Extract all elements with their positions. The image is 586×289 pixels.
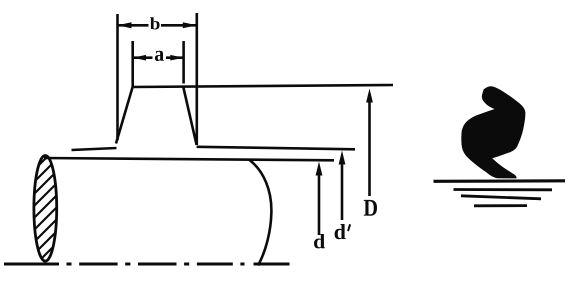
rib left slope — [116, 87, 133, 144]
top outside-diameter line (D level) — [132, 85, 393, 87]
dimension line b — [118, 24, 196, 27]
shaft right end arc — [250, 160, 272, 266]
seal seat line 1 — [434, 179, 566, 183]
d-prime line right segment — [197, 147, 355, 150]
label D — [364, 200, 377, 216]
seal seat line 2 — [454, 188, 553, 191]
dimension arrow D — [366, 89, 373, 197]
rib right slope — [183, 87, 196, 145]
arrowhead b right — [183, 22, 197, 28]
label d-prime — [335, 224, 346, 239]
dimension arrow d — [316, 162, 323, 236]
arrowhead a left — [133, 55, 146, 61]
dimension line a — [133, 56, 183, 59]
extension line b left — [116, 14, 119, 140]
seal seat line 4 — [474, 204, 527, 207]
V-ring seal cross-section (solid) — [461, 86, 525, 178]
extension line a right — [182, 41, 185, 84]
label d — [314, 234, 325, 248]
label a — [155, 51, 164, 61]
arrowhead b left — [118, 22, 132, 28]
label b — [150, 17, 160, 29]
dimension arrow d-prime — [339, 151, 346, 221]
arrowhead a right — [170, 55, 183, 61]
shaft end ellipse with hatching — [18, 129, 75, 289]
extension line a left — [131, 41, 134, 87]
shaft top line (d level) — [44, 158, 334, 160]
d-prime line left segment — [72, 148, 117, 150]
extension line b right — [196, 13, 199, 145]
centerline (dash-dot axis) — [4, 263, 290, 266]
seal seat line 3 — [461, 196, 541, 199]
